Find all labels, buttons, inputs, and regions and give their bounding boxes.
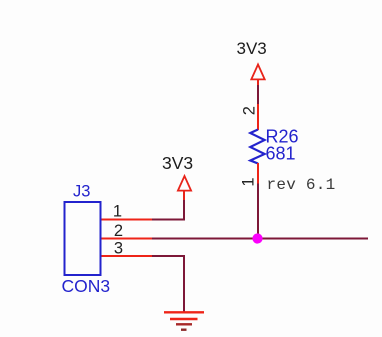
pin 1 of J3 bbox=[102, 219, 153, 221]
resistor R26 bbox=[250, 130, 264, 164]
svg-text:1: 1 bbox=[239, 177, 257, 186]
pin 1 of R26 bbox=[257, 163, 259, 184]
power symbol 3V3 arrow (top right) bbox=[251, 65, 264, 86]
power symbol 3V3 arrow (left) bbox=[178, 176, 191, 200]
wire (junction to right edge) bbox=[258, 238, 369, 240]
svg-text:1: 1 bbox=[113, 203, 122, 221]
connector J3 body bbox=[65, 202, 101, 275]
wire (corner down to ground) bbox=[183, 255, 185, 312]
svg-text:3V3: 3V3 bbox=[237, 39, 267, 58]
wire (3V3 arrow to R26 pin 2) bbox=[257, 85, 259, 105]
wire (R26 pin 1 to junction) bbox=[257, 184, 259, 239]
wire (corner up to 3V3 arrow) bbox=[183, 198, 185, 221]
pin 2 of J3 bbox=[102, 238, 153, 240]
svg-text:2: 2 bbox=[114, 222, 123, 240]
svg-text:J3: J3 bbox=[73, 183, 90, 201]
svg-text:2: 2 bbox=[240, 106, 258, 115]
svg-text:681: 681 bbox=[266, 143, 296, 163]
pin 3 of J3 bbox=[102, 255, 153, 257]
svg-text:3V3: 3V3 bbox=[162, 153, 193, 173]
ground symbol bbox=[164, 312, 204, 329]
wire (J3 pin 2 to junction) bbox=[152, 238, 258, 240]
wire (J3 pin 1 toward 3V3) bbox=[152, 219, 185, 221]
pin 2 of R26 bbox=[257, 104, 259, 130]
junction node bbox=[252, 233, 262, 243]
wire (J3 pin 3 toward ground) bbox=[152, 255, 185, 257]
svg-text:CON3: CON3 bbox=[62, 276, 111, 296]
svg-text:rev 6.1: rev 6.1 bbox=[267, 176, 336, 194]
svg-text:3: 3 bbox=[114, 240, 123, 258]
